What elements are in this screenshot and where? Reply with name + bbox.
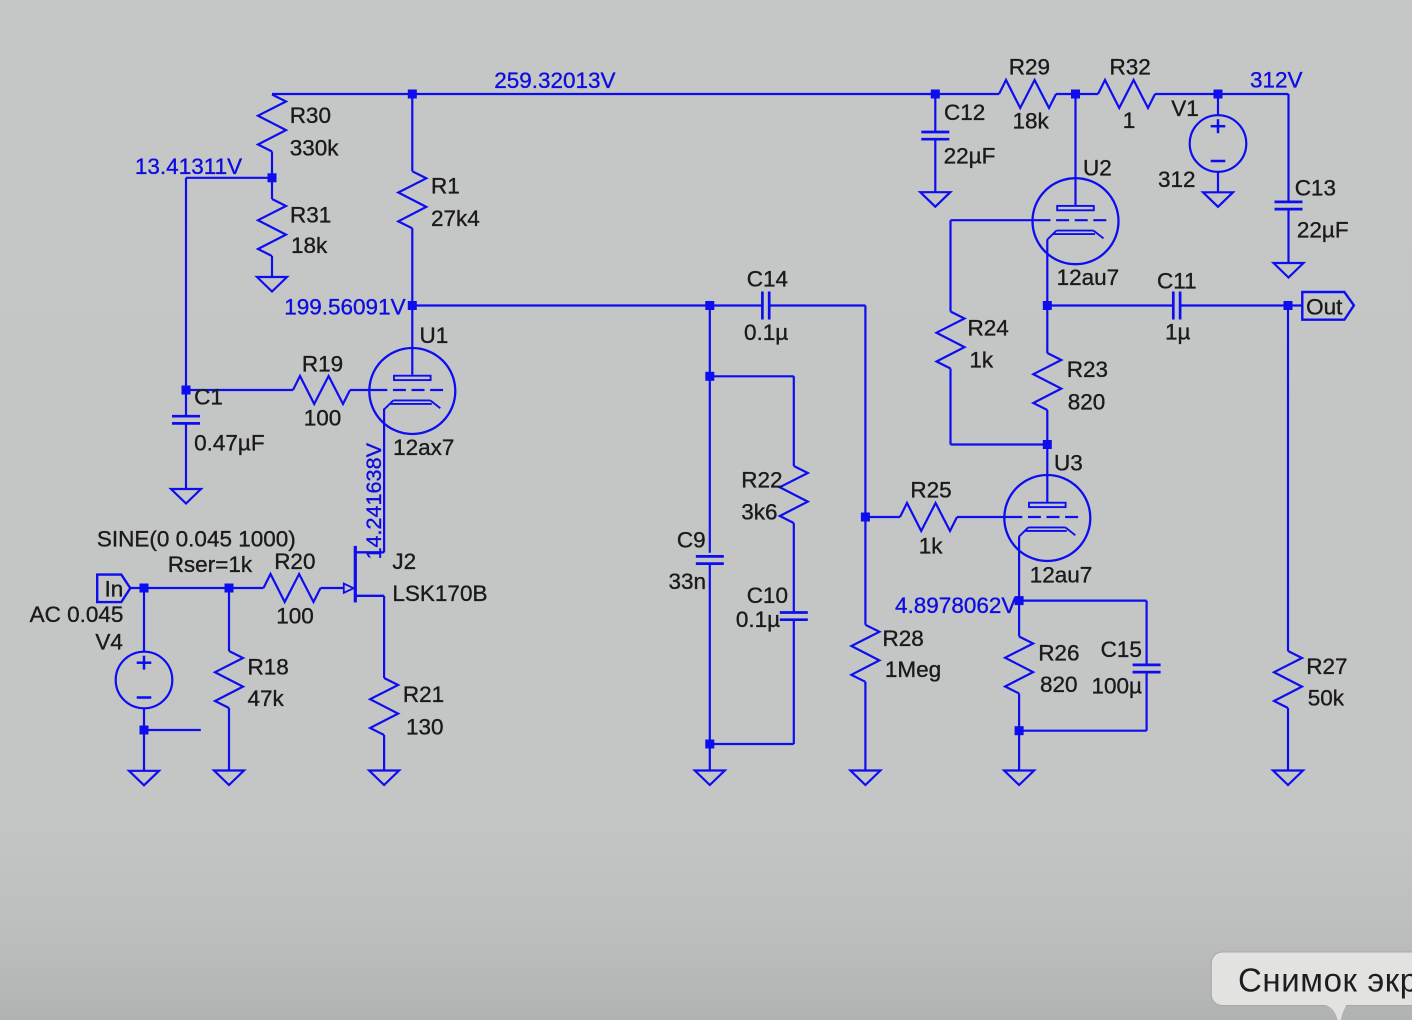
svg-text:Out: Out xyxy=(1306,294,1343,319)
svg-text:130: 130 xyxy=(406,715,444,740)
svg-text:R30: R30 xyxy=(290,103,331,128)
svg-text:1: 1 xyxy=(1123,108,1136,133)
svg-text:22µF: 22µF xyxy=(944,144,996,169)
svg-text:330k: 330k xyxy=(290,135,340,160)
svg-text:50k: 50k xyxy=(1308,686,1345,711)
svg-text:0.1µ: 0.1µ xyxy=(736,607,780,632)
svg-text:199.56091V: 199.56091V xyxy=(284,295,405,320)
svg-text:C11: C11 xyxy=(1157,269,1197,294)
svg-text:R31: R31 xyxy=(290,203,331,228)
svg-text:0.47µF: 0.47µF xyxy=(194,431,265,456)
svg-text:33n: 33n xyxy=(669,569,707,594)
svg-text:C9: C9 xyxy=(677,528,706,553)
svg-text:R32: R32 xyxy=(1110,55,1151,80)
svg-text:R24: R24 xyxy=(968,316,1009,341)
svg-text:12ax7: 12ax7 xyxy=(393,435,454,460)
svg-text:100µ: 100µ xyxy=(1092,674,1143,699)
svg-text:820: 820 xyxy=(1040,672,1078,697)
svg-text:312V: 312V xyxy=(1250,68,1303,93)
svg-text:R1: R1 xyxy=(431,173,460,198)
svg-text:V1: V1 xyxy=(1171,96,1199,121)
svg-text:259.32013V: 259.32013V xyxy=(494,68,615,93)
svg-text:22µF: 22µF xyxy=(1297,218,1349,243)
svg-text:C14: C14 xyxy=(747,267,788,292)
svg-text:SINE(0 0.045 1000): SINE(0 0.045 1000) xyxy=(97,527,296,552)
svg-text:R21: R21 xyxy=(403,682,444,707)
svg-text:1µ: 1µ xyxy=(1165,320,1191,345)
svg-text:LSK170B: LSK170B xyxy=(392,581,487,606)
svg-text:12au7: 12au7 xyxy=(1030,562,1093,587)
svg-text:R29: R29 xyxy=(1009,55,1050,80)
svg-text:C12: C12 xyxy=(944,100,985,125)
svg-text:R22: R22 xyxy=(741,468,782,493)
svg-text:R27: R27 xyxy=(1306,654,1347,679)
svg-text:R28: R28 xyxy=(883,626,924,651)
svg-text:In: In xyxy=(105,577,124,602)
svg-text:1Meg: 1Meg xyxy=(885,657,941,682)
svg-text:C13: C13 xyxy=(1295,175,1336,200)
svg-text:18k: 18k xyxy=(291,233,328,258)
svg-text:R18: R18 xyxy=(248,655,289,680)
svg-text:J2: J2 xyxy=(392,549,416,574)
svg-text:18k: 18k xyxy=(1013,108,1050,133)
svg-text:R19: R19 xyxy=(302,352,343,377)
svg-text:C1: C1 xyxy=(194,385,223,410)
svg-text:12au7: 12au7 xyxy=(1057,265,1120,290)
svg-text:312: 312 xyxy=(1158,167,1196,192)
svg-text:R25: R25 xyxy=(910,478,951,503)
svg-text:14.241638V: 14.241638V xyxy=(361,442,386,559)
svg-text:C10: C10 xyxy=(747,583,788,608)
svg-text:V4: V4 xyxy=(95,630,123,655)
svg-text:820: 820 xyxy=(1068,390,1106,415)
svg-text:47k: 47k xyxy=(248,686,285,711)
svg-text:U1: U1 xyxy=(420,323,449,348)
svg-text:AC 0.045: AC 0.045 xyxy=(30,602,124,627)
svg-text:C15: C15 xyxy=(1101,637,1142,662)
svg-text:3k6: 3k6 xyxy=(741,500,777,525)
svg-text:U3: U3 xyxy=(1054,451,1083,476)
svg-text:1k: 1k xyxy=(919,533,944,558)
svg-text:Rser=1k: Rser=1k xyxy=(168,552,253,577)
svg-text:Снимок экра: Снимок экра xyxy=(1238,961,1412,998)
svg-text:4.8978062V: 4.8978062V xyxy=(895,593,1016,618)
svg-text:100: 100 xyxy=(276,603,314,628)
svg-text:100: 100 xyxy=(304,405,342,430)
svg-text:13.41311V: 13.41311V xyxy=(135,154,242,179)
svg-text:R26: R26 xyxy=(1038,641,1079,666)
svg-text:R23: R23 xyxy=(1067,357,1108,382)
svg-text:1k: 1k xyxy=(969,347,994,372)
svg-text:U2: U2 xyxy=(1083,156,1112,181)
svg-text:R20: R20 xyxy=(274,549,315,574)
svg-text:27k4: 27k4 xyxy=(431,206,480,231)
svg-text:0.1µ: 0.1µ xyxy=(744,320,788,345)
